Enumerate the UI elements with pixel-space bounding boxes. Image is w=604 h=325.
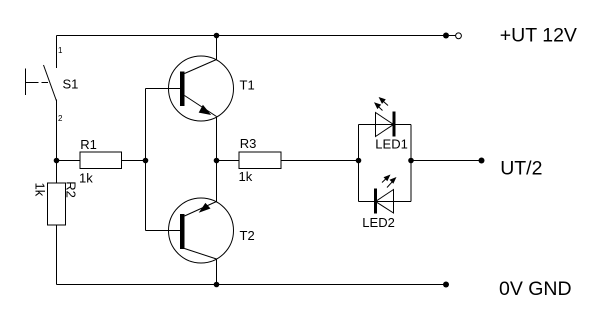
wire T1 collector to top rail bbox=[216, 36, 218, 60]
wire base bus to T2 base bbox=[146, 230, 181, 232]
transistor T2 circle bbox=[169, 198, 234, 263]
wire bottom rail (0V) bbox=[57, 284, 447, 286]
wire R1 to base bus bbox=[122, 160, 146, 162]
node emitter junction (R3 tap) bbox=[214, 158, 220, 164]
svg-text:S1: S1 bbox=[63, 77, 79, 92]
svg-text:1k: 1k bbox=[239, 169, 253, 184]
svg-text:LED1: LED1 bbox=[375, 136, 408, 151]
wire switch pin 1 stub bbox=[56, 36, 58, 69]
wire LED bridge left vertical bbox=[358, 125, 360, 202]
switch S1 actuator link bbox=[26, 82, 39, 84]
transistor T1 circle bbox=[169, 56, 234, 121]
node +UT terminal dot bbox=[443, 33, 449, 39]
transistor T1 collector diagonal bbox=[185, 60, 217, 74]
wire T2 emitter to mid node bbox=[216, 161, 218, 202]
transistor T1 base bar bbox=[180, 72, 185, 107]
wire base bus vertical bbox=[145, 89, 147, 231]
resistor R2 bbox=[48, 183, 66, 225]
wire LED bridge top branch bbox=[359, 124, 412, 126]
svg-text:T1: T1 bbox=[240, 77, 255, 92]
LED2 cathode bar bbox=[374, 189, 377, 214]
wire LED bridge bottom branch bbox=[359, 201, 412, 203]
wire mid node to R3 bbox=[217, 160, 240, 162]
svg-text:LED2: LED2 bbox=[362, 215, 395, 230]
wire left node to R1 bbox=[57, 160, 81, 162]
wire terminal stub to open circle bbox=[449, 35, 456, 37]
transistor T1 emitter arrow bbox=[199, 105, 212, 115]
svg-text:1k: 1k bbox=[32, 183, 47, 197]
transistor T2 collector diagonal bbox=[185, 249, 217, 260]
svg-text:T2: T2 bbox=[240, 228, 255, 243]
svg-text:R1: R1 bbox=[80, 137, 97, 152]
wire switch pin 2 stub bbox=[56, 100, 58, 161]
svg-text:R2: R2 bbox=[64, 181, 79, 198]
wire LED bridge right vertical bbox=[410, 125, 412, 202]
LED2 light arrow lower bbox=[387, 181, 393, 187]
wire left node to R2 bbox=[56, 161, 58, 184]
svg-text:+UT 12V: +UT 12V bbox=[500, 24, 577, 46]
node top rail to T1 collector junction bbox=[214, 33, 220, 39]
wire R2 to bottom rail bbox=[56, 225, 58, 285]
svg-text:1: 1 bbox=[58, 46, 63, 55]
svg-text:2: 2 bbox=[58, 114, 63, 123]
svg-text:1k: 1k bbox=[79, 171, 93, 186]
node UT/2 terminal dot bbox=[479, 158, 485, 164]
wire LED bridge to UT/2 terminal bbox=[411, 160, 482, 162]
transistor T2 base bar bbox=[180, 214, 185, 249]
LED2 light arrow upper bbox=[382, 177, 388, 183]
wire top rail (+UT) bbox=[57, 35, 447, 37]
LED1 cathode bar bbox=[393, 112, 396, 137]
svg-text:R3: R3 bbox=[240, 136, 257, 151]
wire base bus to T1 base bbox=[146, 88, 181, 90]
node LED bridge right bbox=[408, 158, 414, 164]
LED1 light arrow lower bbox=[376, 105, 382, 111]
node left junction (S1 / R1 / R2) bbox=[54, 158, 60, 164]
node LED bridge left bbox=[356, 158, 362, 164]
svg-text:0V GND: 0V GND bbox=[499, 278, 572, 300]
svg-text:UT/2: UT/2 bbox=[500, 158, 542, 180]
wire T1 emitter to mid node bbox=[216, 117, 218, 161]
node base bus junction bbox=[143, 158, 149, 164]
+UT open terminal circle bbox=[456, 33, 462, 39]
transistor T2 emitter arrow bbox=[199, 203, 211, 213]
switch S1 actuator bar bbox=[25, 69, 27, 96]
switch S1 moving contact bbox=[44, 65, 57, 101]
resistor R1 bbox=[80, 152, 122, 169]
wire T2 collector to bottom rail bbox=[216, 259, 218, 285]
LED1 triangle bbox=[376, 113, 394, 137]
transistor T2 emitter diagonal bbox=[185, 202, 217, 217]
resistor R3 bbox=[239, 152, 281, 169]
LED2 triangle bbox=[376, 190, 394, 214]
LED1 light arrow upper bbox=[382, 100, 389, 106]
node bottom rail T2 collector junction bbox=[214, 282, 220, 288]
transistor T1 emitter diagonal bbox=[185, 96, 217, 117]
node 0V terminal dot bbox=[443, 282, 449, 288]
wire R3 to LED bridge bbox=[281, 160, 359, 162]
